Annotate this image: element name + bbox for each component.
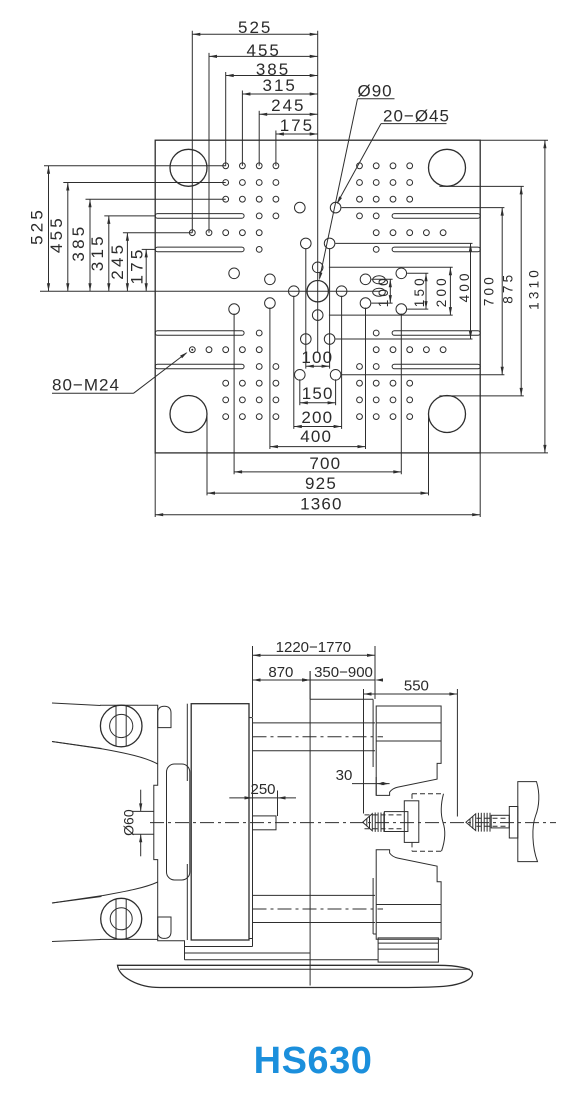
svg-text:525: 525: [238, 18, 272, 37]
svg-text:315: 315: [88, 233, 107, 271]
dim 1220-1770: [252, 646, 254, 717]
T-slots left: [155, 214, 244, 219]
svg-text:1360: 1360: [300, 495, 343, 514]
bottom dim 100: [305, 248, 307, 368]
svg-text:150: 150: [302, 384, 334, 403]
right dim 150: [407, 272, 428, 274]
under-structure rails: [185, 959, 379, 961]
carriage lower block: [376, 850, 441, 939]
right dim 700: [341, 207, 504, 209]
nozzle body: [384, 812, 408, 832]
nozzle retainer plate: [404, 801, 419, 843]
oblong holes: [373, 276, 386, 284]
carriage upper block: [376, 706, 441, 795]
svg-text:175: 175: [128, 247, 147, 285]
bottom dim 700: [233, 314, 235, 475]
bottom dim 1360: [154, 453, 156, 517]
bottom dim 400: [269, 308, 271, 449]
tie bar nut top-left: [100, 705, 142, 747]
toggle guide lines: [186, 704, 188, 781]
moving platen mold face: [252, 718, 254, 947]
tailstock outline: [100, 705, 253, 946]
center locating hole dia90: [307, 281, 328, 302]
tie bar break lines bottom-left: [52, 897, 102, 904]
svg-text:455: 455: [47, 215, 66, 253]
M24 reference hole dot: [191, 349, 193, 351]
machine base: [118, 965, 473, 987]
svg-text:925: 925: [305, 474, 337, 493]
fixed platen: [309, 671, 311, 986]
dim 550: [363, 689, 365, 814]
svg-text:HS630: HS630: [254, 1040, 373, 1082]
svg-text:245: 245: [108, 242, 127, 280]
tie bar nut bottom-left: [101, 898, 142, 939]
ejector rod dia60: [132, 810, 154, 812]
nozzle cone inner lines: [366, 819, 368, 827]
svg-text:350−900: 350−900: [314, 664, 373, 681]
dim 30: [352, 783, 390, 785]
svg-text:700: 700: [482, 274, 497, 306]
barrel head hidden: [412, 793, 444, 795]
svg-text:100: 100: [376, 275, 391, 307]
svg-text:150: 150: [412, 275, 427, 307]
svg-text:525: 525: [28, 207, 47, 245]
80-M24 tapped hole grid: [189, 163, 446, 420]
tie bar hole bottom-left: [170, 396, 207, 433]
T-slots right: [392, 214, 480, 219]
top dimension chain: [191, 31, 193, 233]
spare nozzle: [466, 814, 476, 831]
svg-text:200: 200: [434, 275, 449, 307]
svg-text:100: 100: [301, 348, 333, 367]
dim 250: [277, 791, 279, 817]
dim dia60: [140, 790, 142, 812]
20-dia45 holes: [229, 202, 407, 380]
svg-text:315: 315: [263, 76, 297, 95]
tie bar hole top-left: [170, 149, 207, 186]
tie bar retainer bottom: [158, 917, 171, 938]
svg-text:250: 250: [250, 781, 275, 798]
tie bar break lines top-left: [52, 703, 101, 706]
svg-text:175: 175: [280, 116, 314, 135]
right dim 200: [329, 266, 453, 268]
svg-text:385: 385: [69, 224, 88, 262]
tie bar bottom span: [253, 894, 376, 896]
horizontal centerline: [40, 290, 381, 292]
svg-text:400: 400: [300, 427, 332, 446]
svg-text:30: 30: [336, 767, 353, 784]
moving platen: [191, 704, 249, 940]
tie bar hole top-right: [429, 149, 466, 186]
bottom dim 150: [299, 379, 301, 405]
tie bar top span: [253, 722, 376, 724]
platen outline 1360x1310: [155, 140, 480, 453]
left dimension chain: [44, 165, 226, 167]
svg-text:550: 550: [404, 678, 429, 695]
svg-text:Ø60: Ø60: [121, 809, 137, 836]
vertical centerline: [317, 31, 319, 352]
svg-text:1310: 1310: [527, 267, 542, 310]
svg-text:870: 870: [268, 664, 293, 681]
mold block: [253, 816, 277, 830]
machine nozzle cone: [363, 814, 373, 831]
svg-text:875: 875: [501, 272, 516, 304]
toggle window: [167, 764, 190, 880]
carriage foot block: [378, 938, 438, 962]
side view centerline: [150, 822, 556, 824]
svg-text:20−Ø45: 20−Ø45: [383, 106, 450, 125]
tie bar hole bottom-right: [429, 396, 466, 433]
svg-text:700: 700: [309, 454, 341, 473]
bottom dim 925: [206, 414, 208, 495]
right dim 875: [439, 185, 523, 187]
right dim 100: [371, 278, 392, 280]
nozzle rings: [374, 813, 376, 832]
svg-text:1220−1770: 1220−1770: [276, 639, 352, 656]
svg-text:200: 200: [301, 408, 333, 427]
right dim 1310: [480, 139, 548, 141]
dim 870 / 350-900: [309, 671, 311, 699]
right dim 400: [335, 242, 472, 244]
svg-text:80−M24: 80−M24: [52, 375, 120, 394]
svg-text:455: 455: [247, 41, 281, 60]
svg-text:400: 400: [457, 270, 472, 302]
tie bar retainer top: [158, 706, 171, 727]
svg-text:245: 245: [271, 96, 305, 115]
svg-text:Ø90: Ø90: [358, 82, 393, 101]
bottom dim 200: [293, 296, 295, 429]
